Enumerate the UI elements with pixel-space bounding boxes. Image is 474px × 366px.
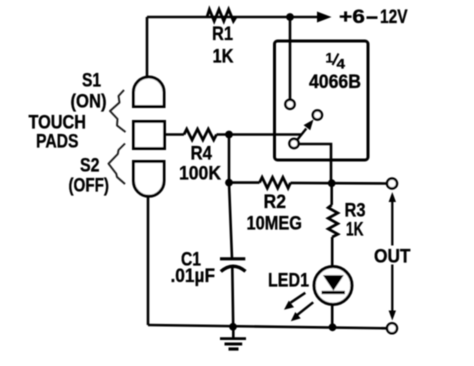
svg-text:10MEG: 10MEG <box>247 214 303 235</box>
svg-text:R2: R2 <box>264 192 287 213</box>
svg-text:1K: 1K <box>213 47 234 68</box>
svg-text:100K: 100K <box>179 164 221 185</box>
svg-text:S2: S2 <box>80 156 100 177</box>
svg-text:R3: R3 <box>345 201 366 222</box>
svg-text:LED1: LED1 <box>268 271 309 292</box>
svg-text:1K: 1K <box>346 220 364 241</box>
svg-text:.01µF: .01µF <box>171 266 216 287</box>
svg-text:+6: +6 <box>339 7 365 28</box>
svg-text:4066B: 4066B <box>309 72 361 93</box>
svg-text:12V: 12V <box>380 7 408 28</box>
svg-text:R4: R4 <box>191 144 213 165</box>
svg-text:1: 1 <box>326 50 334 66</box>
svg-text:TOUCH: TOUCH <box>29 113 87 134</box>
svg-text:S1: S1 <box>82 71 101 92</box>
svg-text:OUT: OUT <box>374 247 411 268</box>
svg-text:(ON): (ON) <box>71 92 107 113</box>
svg-text:R1: R1 <box>212 24 233 45</box>
svg-text:PADS: PADS <box>36 132 79 153</box>
svg-text:(OFF): (OFF) <box>69 176 110 197</box>
svg-text:4: 4 <box>337 56 346 72</box>
